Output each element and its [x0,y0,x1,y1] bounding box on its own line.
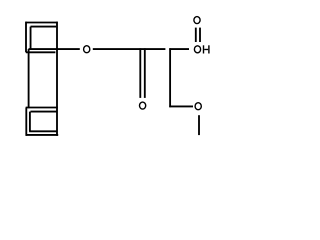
wire ring bottom-left inner double-bond vertical [29,112,31,132]
node hydrogen H of OH label [203,45,204,53]
wire bond from chain corner to methoxy O [169,105,193,107]
node ester oxygen O [84,46,90,53]
wire ring top outer edge [26,22,58,24]
wire ring upper rung continuing as ester bond to O [29,48,80,50]
wire alpha carbon downward vertical bond [169,48,171,107]
node ester carbonyl oxygen O (bottom middle) [140,102,146,109]
wire ester carbonyl C=O double bond right line [144,48,146,98]
wire ring top-left outer vertical [25,22,27,53]
wire ester carbonyl C=O double bond left line [139,48,141,98]
wire bond from alpha carbon to hydroxyl OH [169,48,189,50]
wire ring bottom outer edge [26,134,59,136]
wire ring bottom box top inner double-bond line [30,111,56,113]
wire ring bottom inner double-bond line [29,130,56,132]
wire acid C=O double bond right line [199,28,201,42]
wire ring bottom box top outer edge [26,107,58,109]
wire ring bottom-left outer vertical [25,108,27,136]
wire ring upper rung lower parallel line [26,51,56,53]
wire ring middle-left long vertical [28,49,30,108]
node methoxy oxygen O (bottom right) [195,103,201,110]
wire ring top-left inner double-bond vertical [30,27,32,49]
wire ring top inner double-bond line [31,26,57,28]
node acid carbonyl oxygen O (top right) [194,17,200,24]
wire methyl bond below methoxy O [198,115,200,135]
wire acid C=O double bond left line [195,28,197,42]
node hydroxyl oxygen O of OH [194,46,200,53]
wire ring right long vertical [56,22,58,136]
wire chain bond from ester O to alpha carbon [93,48,166,50]
